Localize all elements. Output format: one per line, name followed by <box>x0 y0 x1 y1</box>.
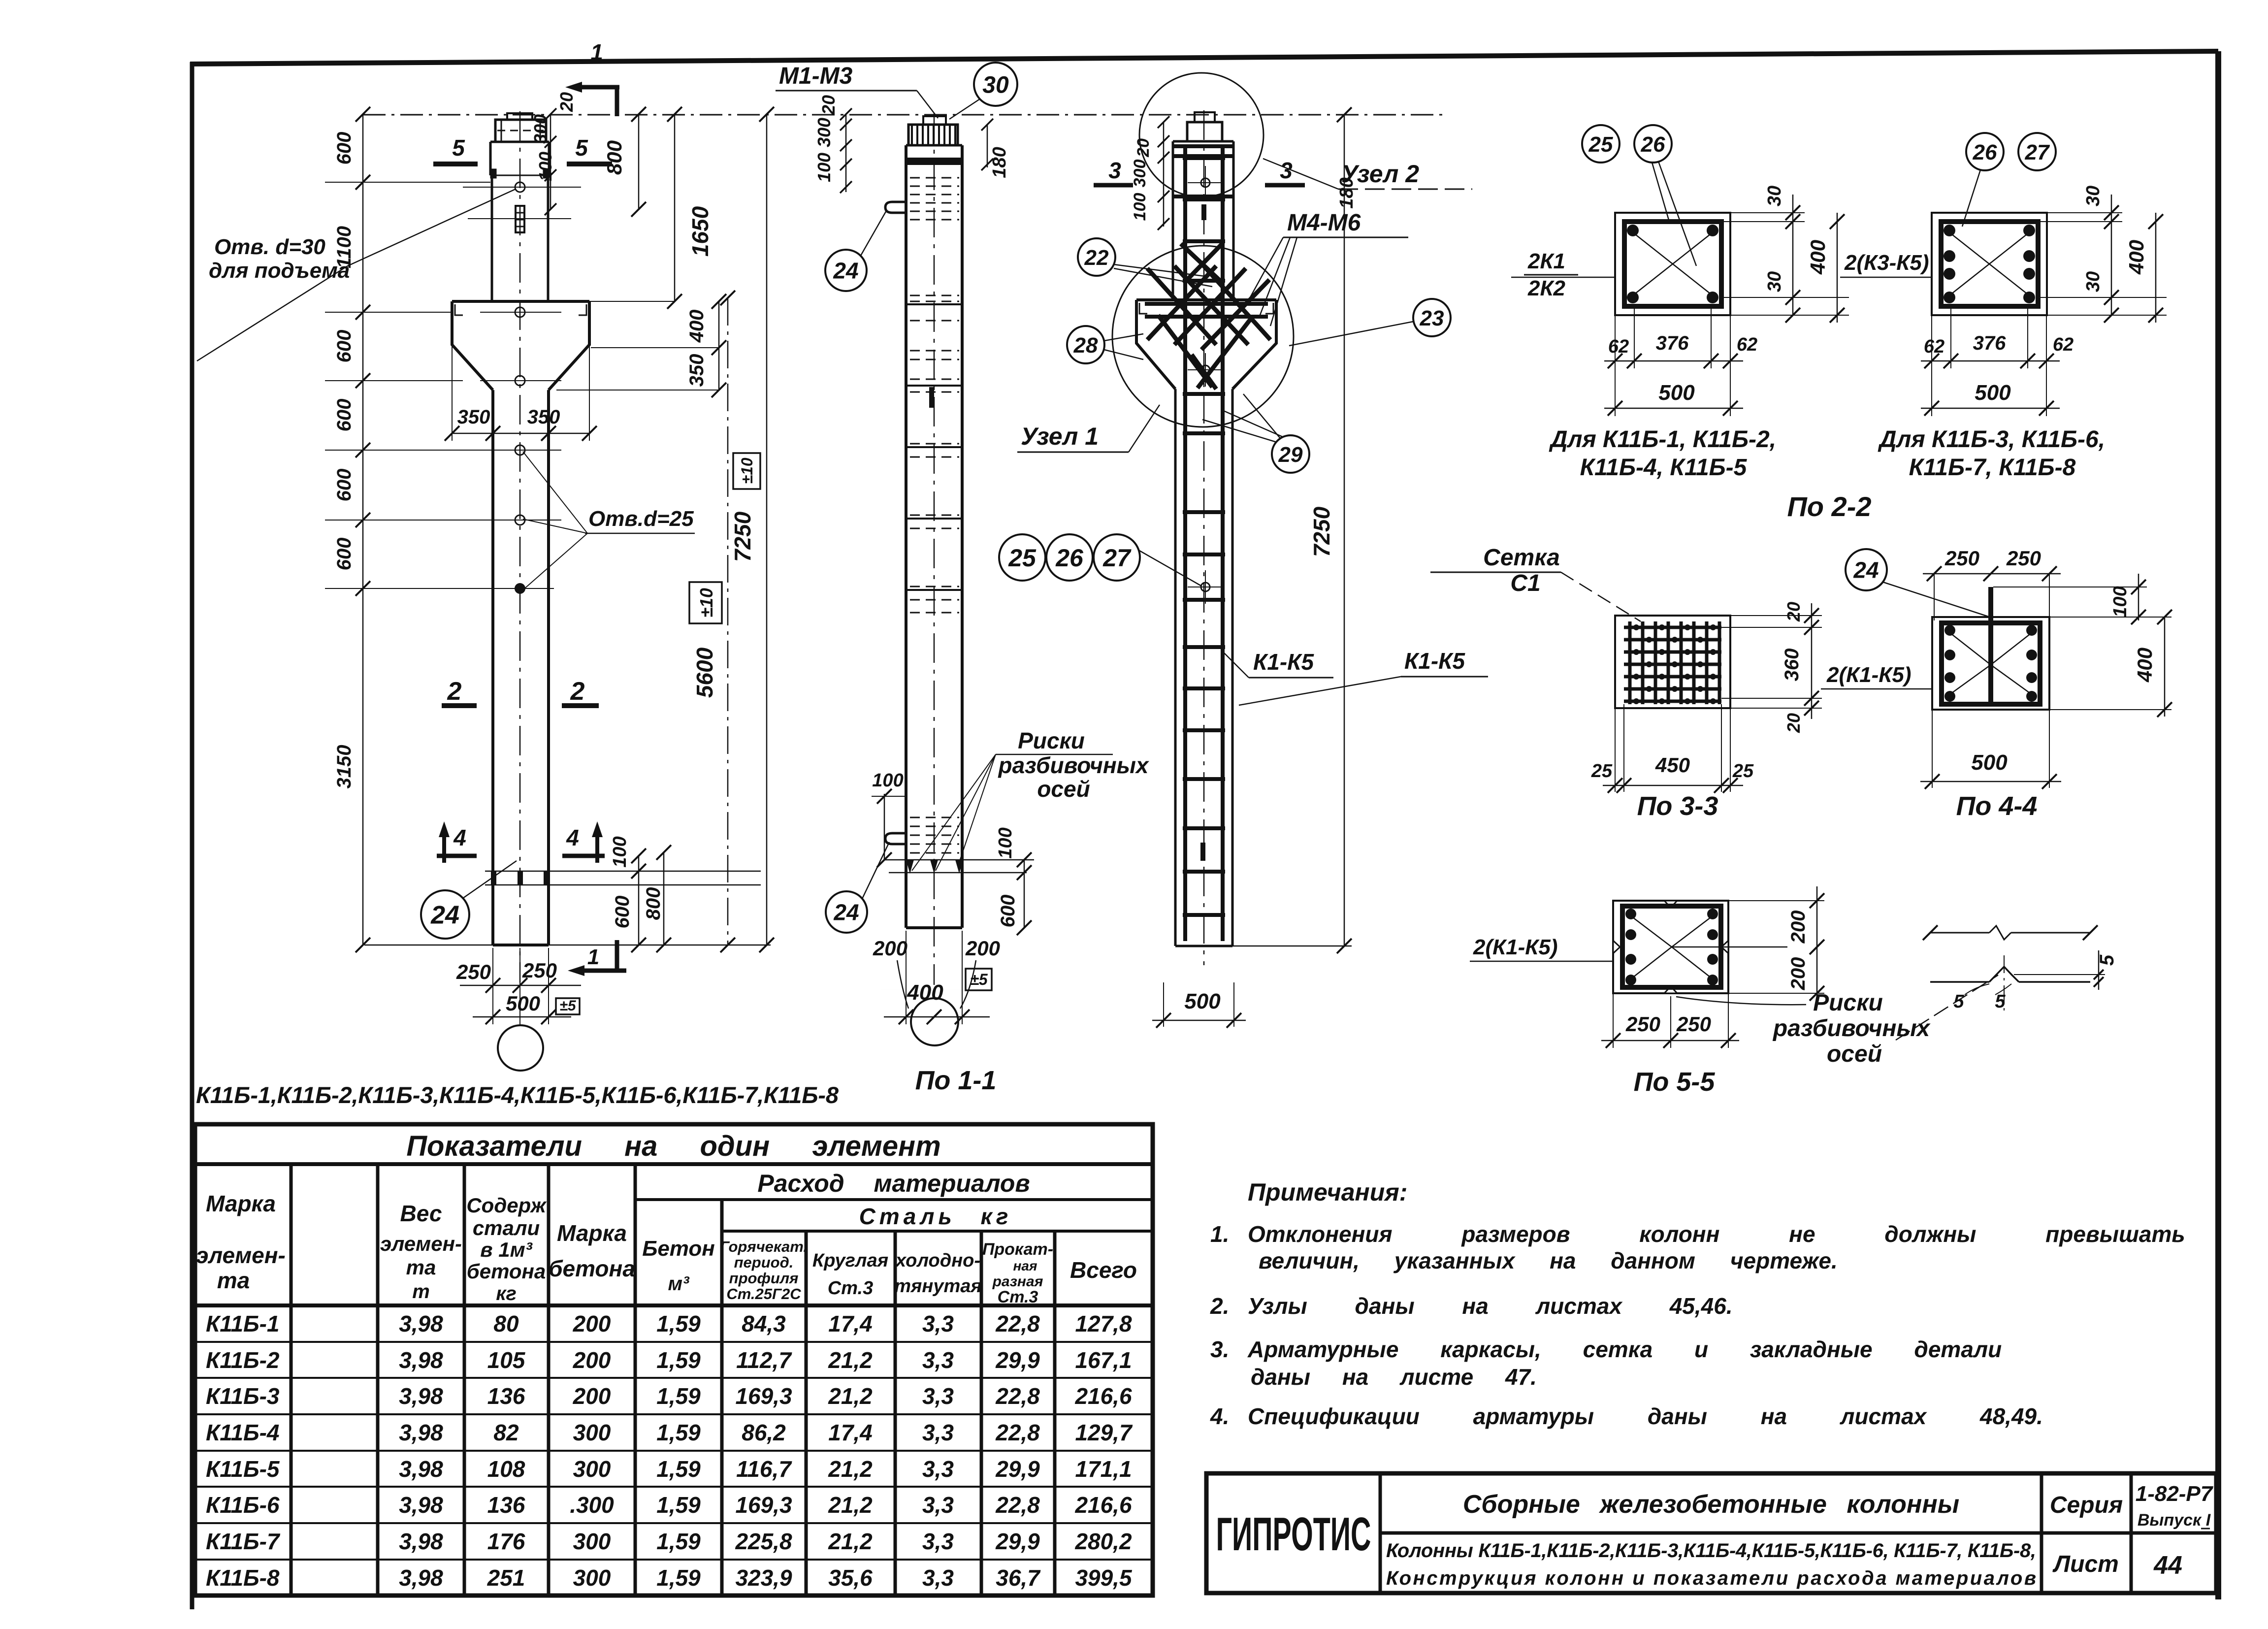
table header Марка элемента <box>196 1191 286 1293</box>
svg-text:22,8: 22,8 <box>995 1383 1040 1409</box>
dim 7250 with tolerance box <box>730 107 774 952</box>
section 5-5 stirrup frame <box>1622 906 1721 987</box>
column C cap <box>1187 122 1222 141</box>
svg-text:169,3: 169,3 <box>735 1383 792 1409</box>
svg-text:3,3: 3,3 <box>922 1311 954 1336</box>
svg-text:По 3-3: По 3-3 <box>1637 791 1718 821</box>
svg-text:1: 1 <box>587 945 599 969</box>
svg-text:500: 500 <box>506 992 540 1015</box>
svg-text:600: 600 <box>612 896 633 929</box>
svg-text:период.: период. <box>734 1254 794 1271</box>
label М4-М6 <box>1246 210 1408 326</box>
svg-text:К11Б-8: К11Б-8 <box>206 1565 280 1591</box>
svg-text:ГИПРОТИС: ГИПРОТИС <box>1216 1508 1371 1561</box>
title block grid <box>1206 1473 2216 1593</box>
svg-text:129,7: 129,7 <box>1075 1420 1133 1445</box>
column C I marks <box>1201 204 1206 220</box>
section 2-2 type 1 outer concrete outline <box>1615 213 1730 315</box>
svg-text:180: 180 <box>1336 177 1357 208</box>
svg-text:17,4: 17,4 <box>828 1420 873 1445</box>
svg-text:По 4-4: По 4-4 <box>1956 791 2038 821</box>
dim 7250 (column C) <box>1309 107 1352 953</box>
svg-text:2: 2 <box>570 677 585 706</box>
svg-text:80: 80 <box>493 1311 519 1336</box>
svg-text:35,6: 35,6 <box>828 1565 873 1591</box>
svg-text:21,2: 21,2 <box>828 1492 873 1518</box>
svg-text:500: 500 <box>1184 989 1221 1013</box>
section 3-3 outer outline <box>1615 616 1730 708</box>
svg-text:300: 300 <box>814 118 834 147</box>
svg-text:1,59: 1,59 <box>656 1565 701 1591</box>
table data rows <box>206 1311 1133 1591</box>
svg-text:3,98: 3,98 <box>399 1420 443 1445</box>
column C head outline <box>1173 141 1233 300</box>
svg-text:1650: 1650 <box>687 206 713 257</box>
section 3-3 bottom dims 25/450/25 <box>1591 704 1754 793</box>
svg-text:22,8: 22,8 <box>995 1311 1040 1336</box>
svg-text:116,7: 116,7 <box>736 1456 792 1482</box>
svg-text:169,3: 169,3 <box>735 1492 792 1518</box>
svg-text:кг: кг <box>496 1283 517 1304</box>
column B I mark <box>929 387 934 408</box>
svg-text:1: 1 <box>590 39 603 65</box>
svg-text:±10: ±10 <box>738 457 756 484</box>
column C shaft <box>1175 389 1232 946</box>
svg-text:3,3: 3,3 <box>922 1529 954 1554</box>
callout circle 22 <box>1078 238 1212 287</box>
label 2К1/2К2 <box>1511 249 1615 300</box>
svg-text:376: 376 <box>1973 332 2006 354</box>
table header Марка бетона <box>549 1220 635 1281</box>
caption Для К11Б-3,6 / 7,8 <box>1878 426 2105 481</box>
svg-text:167,1: 167,1 <box>1075 1347 1132 1373</box>
svg-text:для подъема: для подъема <box>209 259 350 283</box>
svg-text:стали: стали <box>473 1216 540 1239</box>
svg-text:К11Б-6: К11Б-6 <box>206 1492 280 1518</box>
svg-text:±5: ±5 <box>559 998 576 1014</box>
svg-text:200: 200 <box>573 1311 611 1336</box>
callout circle 24 (column B bottom) <box>826 842 889 933</box>
column B dim chain top 20/300/100 <box>814 95 852 193</box>
section mark 1 (bottom) <box>568 940 626 976</box>
svg-text:Ст.3: Ст.3 <box>828 1278 873 1299</box>
label Узел 1 <box>1017 405 1160 452</box>
svg-text:По 2-2: По 2-2 <box>1787 491 1872 522</box>
column B lifting hook bottom <box>885 833 907 844</box>
label 2(К3-К5) <box>1840 251 1932 277</box>
label Сетка С1 <box>1430 545 1641 621</box>
svg-text:3,98: 3,98 <box>399 1456 443 1482</box>
detail circle Узел 1 <box>1112 246 1294 427</box>
column B риски bottom <box>884 860 1034 874</box>
svg-text:600: 600 <box>997 895 1019 928</box>
axis circle (column B) <box>911 998 958 1045</box>
section 5-5 outer outline with notches <box>1613 901 1728 993</box>
svg-text:105: 105 <box>487 1347 526 1373</box>
svg-text:3,98: 3,98 <box>399 1311 443 1336</box>
svg-text:24: 24 <box>833 900 859 925</box>
svg-text:К11Б-7: К11Б-7 <box>206 1529 281 1554</box>
section marks 4-4 with arrows <box>437 821 605 863</box>
svg-text:С1: С1 <box>1510 570 1540 596</box>
svg-text:Содерж: Содерж <box>466 1194 547 1217</box>
svg-text:Для К11Б-1, К11Б-2,: Для К11Б-1, К11Б-2, <box>1549 426 1776 453</box>
svg-text:Сталь кг: Сталь кг <box>859 1204 1012 1229</box>
column C stirrup rungs <box>1183 158 1225 915</box>
section 5-5 right dims 200/200 <box>1728 886 1824 1005</box>
svg-text:24: 24 <box>430 901 459 930</box>
table header Бетон м3 <box>642 1237 715 1295</box>
svg-text:400: 400 <box>2133 648 2156 683</box>
svg-text:Горячекат.: Горячекат. <box>720 1238 808 1255</box>
svg-text:К1-К5: К1-К5 <box>1404 648 1465 674</box>
column C centerline <box>1203 110 1205 965</box>
svg-text:1,59: 1,59 <box>656 1383 701 1409</box>
svg-text:176: 176 <box>487 1529 525 1554</box>
svg-text:21,2: 21,2 <box>828 1383 873 1409</box>
svg-text:500: 500 <box>1975 381 2011 405</box>
svg-text:т: т <box>412 1281 430 1303</box>
svg-text:300: 300 <box>573 1565 611 1591</box>
svg-text:25: 25 <box>1732 761 1754 782</box>
svg-text:Риски: Риски <box>1018 728 1085 753</box>
svg-text:280,2: 280,2 <box>1074 1529 1132 1554</box>
svg-text:5: 5 <box>1953 991 1964 1012</box>
section 2-2 type 2 corner rebar dots <box>1944 225 2035 303</box>
svg-text:350: 350 <box>527 406 560 428</box>
svg-text:200: 200 <box>573 1383 611 1409</box>
svg-text:800: 800 <box>603 140 626 175</box>
svg-text:225,8: 225,8 <box>735 1529 792 1554</box>
svg-text:29,9: 29,9 <box>995 1529 1040 1554</box>
section 3-3 right dims 20/360/20 <box>1721 602 1822 733</box>
dim 5600 with tolerance box <box>689 291 735 952</box>
svg-text:36,7: 36,7 <box>996 1565 1041 1591</box>
svg-text:3150: 3150 <box>333 745 355 789</box>
svg-text:600: 600 <box>333 399 355 432</box>
column K11B head <box>490 142 549 178</box>
svg-text:800: 800 <box>643 887 664 920</box>
svg-text:4: 4 <box>566 825 579 850</box>
callout circles 25/26 over section type 1 <box>1582 125 1696 266</box>
section 2-2 type 1 tie diagonals <box>1633 232 1713 295</box>
svg-text:1-82-Р7: 1-82-Р7 <box>2136 1482 2214 1506</box>
section type2 right dims 30/30/400 <box>2040 186 2167 323</box>
svg-text:22,8: 22,8 <box>995 1492 1040 1518</box>
table header Содерж стали <box>466 1194 547 1304</box>
callout circle 24 (column B top) <box>825 211 886 291</box>
svg-text:23: 23 <box>1420 306 1444 330</box>
section 5-5 rebar dots <box>1625 909 1718 985</box>
svg-text:3,3: 3,3 <box>922 1456 954 1482</box>
svg-text:По 5-5: По 5-5 <box>1634 1067 1716 1097</box>
callout circle 24 (column A) <box>421 861 517 939</box>
table header Вес элемента <box>380 1201 462 1303</box>
callout circles 25 26 27 <box>999 534 1201 586</box>
svg-text:3,98: 3,98 <box>399 1529 443 1554</box>
svg-text:600: 600 <box>333 538 355 571</box>
svg-text:Примечания:: Примечания: <box>1248 1178 1407 1206</box>
dim 800 (column A top) <box>603 107 646 217</box>
svg-text:3,3: 3,3 <box>922 1420 954 1445</box>
svg-text:.300: .300 <box>570 1492 614 1518</box>
svg-text:3,3: 3,3 <box>922 1565 954 1591</box>
svg-text:27: 27 <box>2025 140 2050 164</box>
svg-text:24: 24 <box>1853 557 1879 583</box>
section marks 5-5 <box>433 135 612 164</box>
svg-text:200: 200 <box>573 1347 611 1373</box>
svg-text:86,2: 86,2 <box>742 1420 786 1445</box>
groove detail dims 5 <box>1953 950 2118 1012</box>
svg-text:Марка: Марка <box>557 1220 627 1246</box>
svg-text:та: та <box>217 1268 250 1293</box>
svg-text:250: 250 <box>456 960 491 983</box>
section 4-4 tie diagonals <box>1950 633 2032 694</box>
svg-text:бетона: бетона <box>549 1256 635 1281</box>
column B embedded-part dashed bands <box>910 178 959 853</box>
svg-text:30: 30 <box>1764 271 1785 292</box>
section 3-3 mesh grid <box>1624 621 1721 704</box>
svg-text:Бетон: Бетон <box>642 1237 715 1261</box>
svg-text:22,8: 22,8 <box>995 1420 1040 1445</box>
svg-text:350: 350 <box>457 406 490 428</box>
column C bracket X bracing <box>1145 244 1270 389</box>
section 4-4 outer outline <box>1932 617 2049 710</box>
label Риски разбивочных осей (sections) <box>1676 975 1998 1067</box>
svg-text:разбивочных: разбивочных <box>997 752 1149 778</box>
svg-text:1,59: 1,59 <box>656 1456 701 1482</box>
svg-text:28: 28 <box>1073 333 1098 358</box>
svg-text:25: 25 <box>1588 132 1613 157</box>
svg-text:24: 24 <box>833 258 858 284</box>
svg-text:251: 251 <box>487 1565 525 1591</box>
svg-text:84,3: 84,3 <box>742 1311 786 1336</box>
svg-text:разбивочных: разбивочных <box>1772 1015 1931 1042</box>
svg-text:600: 600 <box>333 330 355 363</box>
column B centerline <box>934 113 935 985</box>
svg-text:500: 500 <box>1971 750 2008 775</box>
svg-text:30: 30 <box>2083 186 2104 206</box>
svg-text:Колонны К11Б-1,К11Б-2,К11Б-3,К: Колонны К11Б-1,К11Б-2,К11Б-3,К11Б-4,К11Б… <box>1386 1540 2036 1562</box>
svg-text:5: 5 <box>575 135 588 161</box>
column K11B bracket (console) <box>452 301 589 390</box>
svg-text:3,3: 3,3 <box>922 1492 954 1518</box>
bottom anchor риски band <box>485 871 761 885</box>
svg-text:К11Б-5: К11Б-5 <box>206 1456 280 1482</box>
svg-text:21,2: 21,2 <box>828 1529 873 1554</box>
svg-text:1,59: 1,59 <box>656 1529 701 1554</box>
callout circle 24 (section 4-4) <box>1846 549 1988 617</box>
section 2-2 type 2 stirrup frame <box>1941 222 2038 306</box>
svg-text:±5: ±5 <box>970 971 988 988</box>
svg-text:3,98: 3,98 <box>399 1565 443 1591</box>
column B lifting hook top <box>885 202 907 213</box>
section 4-4 anchor bar 24 <box>1988 587 1993 702</box>
dim 350/350 below bracket <box>445 345 597 441</box>
svg-text:Ст.25Г2С: Ст.25Г2С <box>726 1285 801 1303</box>
table header холоднотянутая <box>894 1250 982 1297</box>
svg-text:29: 29 <box>1278 443 1303 467</box>
svg-text:300: 300 <box>573 1420 611 1445</box>
svg-text:Спецификации арматуры даны на: Спецификации арматуры даны на листах 48,… <box>1248 1403 2043 1429</box>
column C top tab <box>1195 112 1215 122</box>
svg-text:600: 600 <box>333 132 355 165</box>
svg-text:250: 250 <box>1625 1012 1660 1036</box>
column B body <box>906 145 962 928</box>
svg-text:250: 250 <box>522 959 557 982</box>
svg-text:2К1: 2К1 <box>1527 249 1565 273</box>
svg-text:Марка: Марка <box>206 1191 276 1216</box>
svg-text:108: 108 <box>487 1456 525 1482</box>
svg-text:3,3: 3,3 <box>922 1383 954 1409</box>
groove detail top broken line <box>1923 925 2098 940</box>
svg-text:200: 200 <box>965 937 1000 960</box>
svg-text:элемен-: элемен- <box>380 1232 462 1255</box>
label Отв d=25 <box>523 452 695 590</box>
svg-text:1,59: 1,59 <box>656 1420 701 1445</box>
svg-text:500: 500 <box>1658 381 1695 405</box>
svg-text:200: 200 <box>1787 911 1809 944</box>
svg-text:250: 250 <box>1676 1012 1711 1036</box>
svg-text:К11Б-1: К11Б-1 <box>206 1311 280 1336</box>
section 4-4 top dims 250/250 <box>1923 547 2061 620</box>
svg-text:26: 26 <box>1641 132 1665 157</box>
section marks 2-2 <box>442 677 599 706</box>
svg-text:21,2: 21,2 <box>828 1347 873 1373</box>
section 2-2 type 2 outer concrete outline <box>1932 213 2047 315</box>
groove detail notch profile <box>1930 955 2090 1012</box>
svg-text:100: 100 <box>535 152 555 181</box>
table header Прокатная <box>982 1240 1053 1306</box>
section mark 1 (top) <box>565 39 619 116</box>
svg-text:29,9: 29,9 <box>995 1456 1040 1482</box>
svg-text:Прокат-: Прокат- <box>982 1240 1053 1259</box>
svg-text:216,6: 216,6 <box>1074 1383 1132 1409</box>
svg-text:136: 136 <box>487 1492 525 1518</box>
column K11B elevation centerline <box>519 111 521 982</box>
svg-text:5600: 5600 <box>692 647 717 698</box>
column B bottom dims 200/200/400 <box>873 931 1000 1024</box>
section 5-5 bottom dims 250/250 <box>1601 993 1739 1048</box>
svg-text:±10: ±10 <box>696 588 716 618</box>
svg-text:44: 44 <box>2153 1551 2182 1580</box>
svg-text:бетона: бетона <box>467 1260 546 1283</box>
svg-text:3,98: 3,98 <box>399 1492 443 1518</box>
embedded strip detail <box>468 206 571 232</box>
svg-text:22: 22 <box>1084 246 1109 270</box>
svg-text:Серия: Серия <box>2050 1492 2123 1518</box>
dim 180 (column B) <box>981 119 1010 178</box>
svg-text:300: 300 <box>1131 160 1149 188</box>
svg-text:К11Б-3: К11Б-3 <box>206 1383 280 1409</box>
svg-text:осей: осей <box>1827 1041 1882 1067</box>
svg-text:7250: 7250 <box>730 511 755 562</box>
svg-text:Отв.d=25: Отв.d=25 <box>588 507 694 531</box>
section type2 bottom dims 62/376/62/500 <box>1921 306 2074 416</box>
svg-text:Узлы даны на листах 45,46.: Узлы даны на листах 45,46. <box>1248 1293 1733 1319</box>
svg-text:2(К3-К5): 2(К3-К5) <box>1844 251 1929 275</box>
svg-text:2К2: 2К2 <box>1527 276 1566 300</box>
svg-text:400: 400 <box>1806 240 1829 275</box>
svg-text:Круглая: Круглая <box>812 1250 888 1271</box>
svg-text:100: 100 <box>872 770 903 791</box>
svg-text:Для К11Б-3, К11Б-6,: Для К11Б-3, К11Б-6, <box>1878 426 2105 453</box>
dim 1650 <box>559 107 713 309</box>
svg-text:3.: 3. <box>1210 1336 1229 1362</box>
svg-text:100: 100 <box>995 827 1016 858</box>
svg-text:127,8: 127,8 <box>1075 1311 1132 1336</box>
svg-text:ная: ная <box>1013 1258 1037 1273</box>
section 4-4 stirrup frame <box>1942 623 2040 704</box>
svg-text:По 1-1: По 1-1 <box>915 1066 997 1095</box>
label К1-К5 (right) <box>1239 648 1488 705</box>
svg-text:2: 2 <box>447 677 462 706</box>
section 4-4 bottom dim 500 <box>1920 710 2061 789</box>
svg-text:3,98: 3,98 <box>399 1383 443 1409</box>
svg-text:4.: 4. <box>1210 1403 1229 1429</box>
svg-text:Узел 1: Узел 1 <box>1021 423 1099 450</box>
section 5-5 tie diagonals <box>1631 916 1713 979</box>
column C bracket <box>1136 300 1276 389</box>
svg-text:180: 180 <box>989 147 1010 178</box>
dim 100/600 bottom right <box>610 836 646 952</box>
svg-text:Вес: Вес <box>400 1201 442 1226</box>
svg-text:Сетка: Сетка <box>1483 545 1560 571</box>
svg-text:62: 62 <box>1737 334 1757 355</box>
svg-text:4: 4 <box>453 825 466 850</box>
svg-text:20: 20 <box>1783 713 1804 733</box>
svg-text:112,7: 112,7 <box>736 1347 792 1373</box>
svg-text:холодно-: холодно- <box>895 1250 980 1271</box>
svg-text:1.: 1. <box>1210 1221 1229 1247</box>
svg-text:Риски: Риски <box>1813 990 1883 1016</box>
svg-text:Ст.3: Ст.3 <box>998 1288 1038 1306</box>
caption Для К11Б-1,2 / 4,5 <box>1549 426 1776 481</box>
title block subtitle lines <box>1386 1540 2036 1589</box>
column C bottom dim 500 <box>1152 982 1246 1028</box>
section marks 3-3 <box>1094 158 1305 185</box>
svg-text:216,6: 216,6 <box>1074 1492 1132 1518</box>
table header Круглая Ст.3 <box>812 1250 888 1299</box>
svg-text:100: 100 <box>814 153 834 182</box>
label Риски разбивочных осей (column B) <box>912 728 1150 871</box>
svg-text:м³: м³ <box>668 1273 690 1295</box>
section 2-2 type 2 tie diagonals <box>1949 232 2029 295</box>
column K11B lower shaft <box>493 390 549 945</box>
notes Примечания <box>1210 1178 2185 1429</box>
svg-text:400: 400 <box>2125 240 2148 275</box>
callout circle 30 <box>949 63 1017 119</box>
svg-text:450: 450 <box>1655 753 1690 777</box>
column B bottom-left dim 100 <box>872 770 906 867</box>
table header Горячекат <box>720 1238 808 1303</box>
svg-text:360: 360 <box>1781 649 1803 682</box>
svg-text:М1-М3: М1-М3 <box>779 63 853 89</box>
column B right dims 100/600 <box>995 827 1032 935</box>
svg-text:250: 250 <box>2006 547 2041 570</box>
top datum line <box>363 114 1443 116</box>
label 2(К1-К5) section 4-4 <box>1821 663 1932 689</box>
svg-text:62: 62 <box>1608 336 1629 357</box>
table Показатели на один элемент : grid <box>195 1124 1153 1596</box>
svg-text:К1-К5: К1-К5 <box>1253 649 1314 675</box>
svg-text:величин, указанных на данном ч: величин, указанных на данном чертеже. <box>1259 1248 1838 1273</box>
svg-text:376: 376 <box>1656 332 1689 354</box>
svg-text:62: 62 <box>2053 334 2074 355</box>
callout circle 28 <box>1067 326 1143 363</box>
svg-text:в 1м³: в 1м³ <box>480 1238 532 1261</box>
callout circle 23 <box>1289 299 1451 346</box>
